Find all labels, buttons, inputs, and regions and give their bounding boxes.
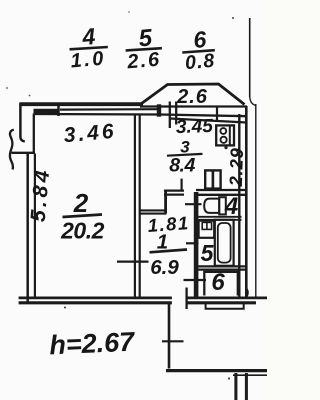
window middle line xyxy=(60,108,157,111)
svg-text:8.4: 8.4 xyxy=(169,155,195,177)
svg-text:5.84: 5.84 xyxy=(27,166,55,223)
staircase wall second line xyxy=(233,374,267,376)
stove burner 2 xyxy=(221,137,227,143)
room2/hall wall right line xyxy=(139,114,141,297)
bathtub outer xyxy=(215,220,234,266)
svg-text:2.6: 2.6 xyxy=(125,49,162,74)
fraction 4/1.0 bar xyxy=(70,47,108,49)
svg-text:2.6: 2.6 xyxy=(176,86,208,108)
room2 door tick xyxy=(117,261,149,263)
wall between 5 and 6 xyxy=(194,266,247,269)
fraction 6/0.8 bar xyxy=(182,50,215,52)
smudge below stove xyxy=(224,146,227,149)
kitchen sink xyxy=(205,170,220,188)
kitchen door leaf xyxy=(181,179,183,191)
right boundary thin line top xyxy=(249,18,251,97)
fraction 5/2.6 bar xyxy=(126,48,162,50)
window jamb tick xyxy=(57,104,60,116)
speck xyxy=(128,11,130,13)
room2 fraction bar xyxy=(63,215,103,218)
balcony trapezoid xyxy=(142,84,245,105)
wall segment thick lower line xyxy=(34,109,59,115)
speck xyxy=(29,95,31,97)
right wall outer line xyxy=(245,106,248,297)
top wall outer line xyxy=(20,102,144,106)
svg-text:20.2: 20.2 xyxy=(60,218,104,244)
svg-text:6: 6 xyxy=(211,269,225,296)
room2 left wall inner xyxy=(34,154,36,298)
svg-text:1.81: 1.81 xyxy=(147,212,190,236)
room2/hall wall left line xyxy=(134,114,136,297)
bathtub inner xyxy=(218,223,231,263)
entrance jamb vertical xyxy=(185,288,187,310)
kitchen bottom wall right segment xyxy=(196,190,247,195)
kitchen window jamb ticks xyxy=(170,102,176,129)
room6 door tick xyxy=(184,279,207,281)
kitchen sill line xyxy=(170,119,247,123)
svg-text:2: 2 xyxy=(73,188,89,218)
staircase vertical xyxy=(168,303,171,369)
window tick right xyxy=(216,106,218,123)
bottom wall bottom line xyxy=(19,301,256,304)
stove divider xyxy=(229,126,231,145)
ledge horizontal xyxy=(12,152,36,154)
washbasin inner xyxy=(202,222,211,229)
top wall outer thin continuation xyxy=(140,105,247,107)
bath door tick xyxy=(186,242,199,244)
svg-text:2.29: 2.29 xyxy=(226,147,247,188)
stove xyxy=(216,125,234,145)
kitchen bottom wall left segment xyxy=(164,191,184,195)
hall/bath wall xyxy=(194,192,199,297)
kitchen fraction bar xyxy=(167,154,203,156)
room6 box xyxy=(204,272,238,296)
threshold rectangle below wall xyxy=(206,303,244,309)
bottom wall top line xyxy=(19,296,267,299)
staircase wall xyxy=(166,369,267,372)
inner corner vertical xyxy=(33,114,35,155)
room2 left wall outer xyxy=(26,152,29,303)
speck xyxy=(228,377,230,379)
right boundary hook xyxy=(250,96,256,106)
top wall inner line xyxy=(34,114,248,116)
hall step horizontal wall xyxy=(140,210,167,213)
svg-text:3.45: 3.45 xyxy=(176,116,214,138)
left outer wall stub with hook xyxy=(20,103,24,141)
svg-text:0.8: 0.8 xyxy=(184,50,216,75)
right thin outer line xyxy=(255,104,257,298)
break squiggle xyxy=(10,130,14,170)
lower vertical 2 xyxy=(245,373,248,400)
staircase tick xyxy=(162,340,184,342)
svg-text:4: 4 xyxy=(80,23,96,50)
svg-text:5: 5 xyxy=(201,240,215,266)
wall between 4 and 5 xyxy=(196,217,242,220)
washbasin divider xyxy=(206,222,208,229)
svg-text:6: 6 xyxy=(192,26,207,53)
hall step vertical wall xyxy=(164,190,167,214)
stove burner 1 xyxy=(220,128,226,134)
svg-text:1.0: 1.0 xyxy=(70,47,107,72)
kitchen sink divider xyxy=(212,172,215,189)
right wall end hook xyxy=(246,288,248,297)
speck xyxy=(232,17,234,19)
speck xyxy=(6,87,8,89)
window end bar xyxy=(157,104,161,116)
svg-text:3.46: 3.46 xyxy=(63,120,118,148)
toilet door tick xyxy=(185,203,202,205)
toilet cistern xyxy=(219,197,226,214)
hall fraction bar xyxy=(150,250,188,253)
svg-text:6.9: 6.9 xyxy=(150,256,179,279)
right wall inner line xyxy=(238,114,240,297)
speck xyxy=(64,307,66,309)
washbasin xyxy=(199,221,215,238)
lower vertical 1 xyxy=(234,373,237,400)
svg-text:h=2.67: h=2.67 xyxy=(49,327,137,361)
toilet bowl xyxy=(204,199,219,213)
